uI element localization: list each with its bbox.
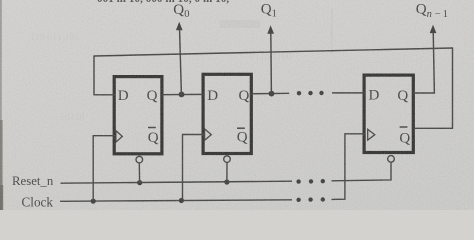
node junction Q0 tap [179,92,185,98]
wire U1 Q to U2 D [162,93,204,95]
wire feedback right vertical [452,47,454,128]
U2 pin label Qbar [237,128,248,145]
wire U2 reset riser [226,162,228,182]
U2 reset bubble (active-low clear) [224,156,231,163]
ellipsis dots on D line between U2 and U3 [297,91,324,96]
ghost show-through marks [30,8,333,123]
U3 pin label Qbar [399,127,410,146]
node junction reset to U2 [224,179,229,184]
wire feedback top horizontal (U3 Qbar to U1 D) [94,48,453,56]
wire U2 Q output [251,92,289,95]
wire U1 D input stub [93,94,114,96]
flip-flop U3 (rightmost D flip-flop) [364,75,413,152]
wire U3 Qbar output stub [414,127,454,129]
node junction clock to U2 [179,198,184,203]
wire U3 Q output stub [413,92,435,94]
wire clock rail left segment [60,200,292,202]
wire U1 reset riser [138,163,140,183]
flip-flop U1 (leftmost D flip-flop) [114,77,162,154]
wire U1 clock riser [93,136,115,201]
U1 pin label Qbar [148,128,159,146]
node label Q1 [261,1,277,19]
wire feedback left vertical [93,55,95,94]
arrowhead Qn-1 [430,25,437,33]
node junction Q1 tap [269,91,275,97]
ellipsis dots on clock rail [296,197,325,202]
U2 clock edge triangle [205,129,212,140]
arrowhead Q1 [267,25,274,34]
wire reset rail right segment [332,162,392,181]
wire reset rail left segment [61,181,293,183]
page left edge shadow [0,0,3,210]
U3 clock edge triangle [368,129,375,140]
node label Q0 [173,2,189,20]
wire Q1 riser [270,32,273,94]
flip-flop U2 (middle D flip-flop) [203,74,251,153]
wire clock rail right segment and U3 clock riser [332,134,366,200]
wire Qn-1 riser [433,31,434,94]
arrowhead Q0 [176,22,183,31]
node label Qn-1 [416,1,448,19]
clipped text fragment at top [97,0,229,5]
node junction reset to U1 [137,180,142,185]
U1 reset bubble (active-low clear) [136,156,143,163]
U1 clock edge triangle [116,131,122,143]
ellipsis dots on reset rail [296,179,325,184]
U3 reset bubble (active-low clear) [388,156,395,163]
wire Q0 riser [180,28,182,95]
wire U3 D input stub [332,92,365,94]
wire U2 clock riser [183,135,205,201]
node junction clock to U1 [91,199,96,204]
